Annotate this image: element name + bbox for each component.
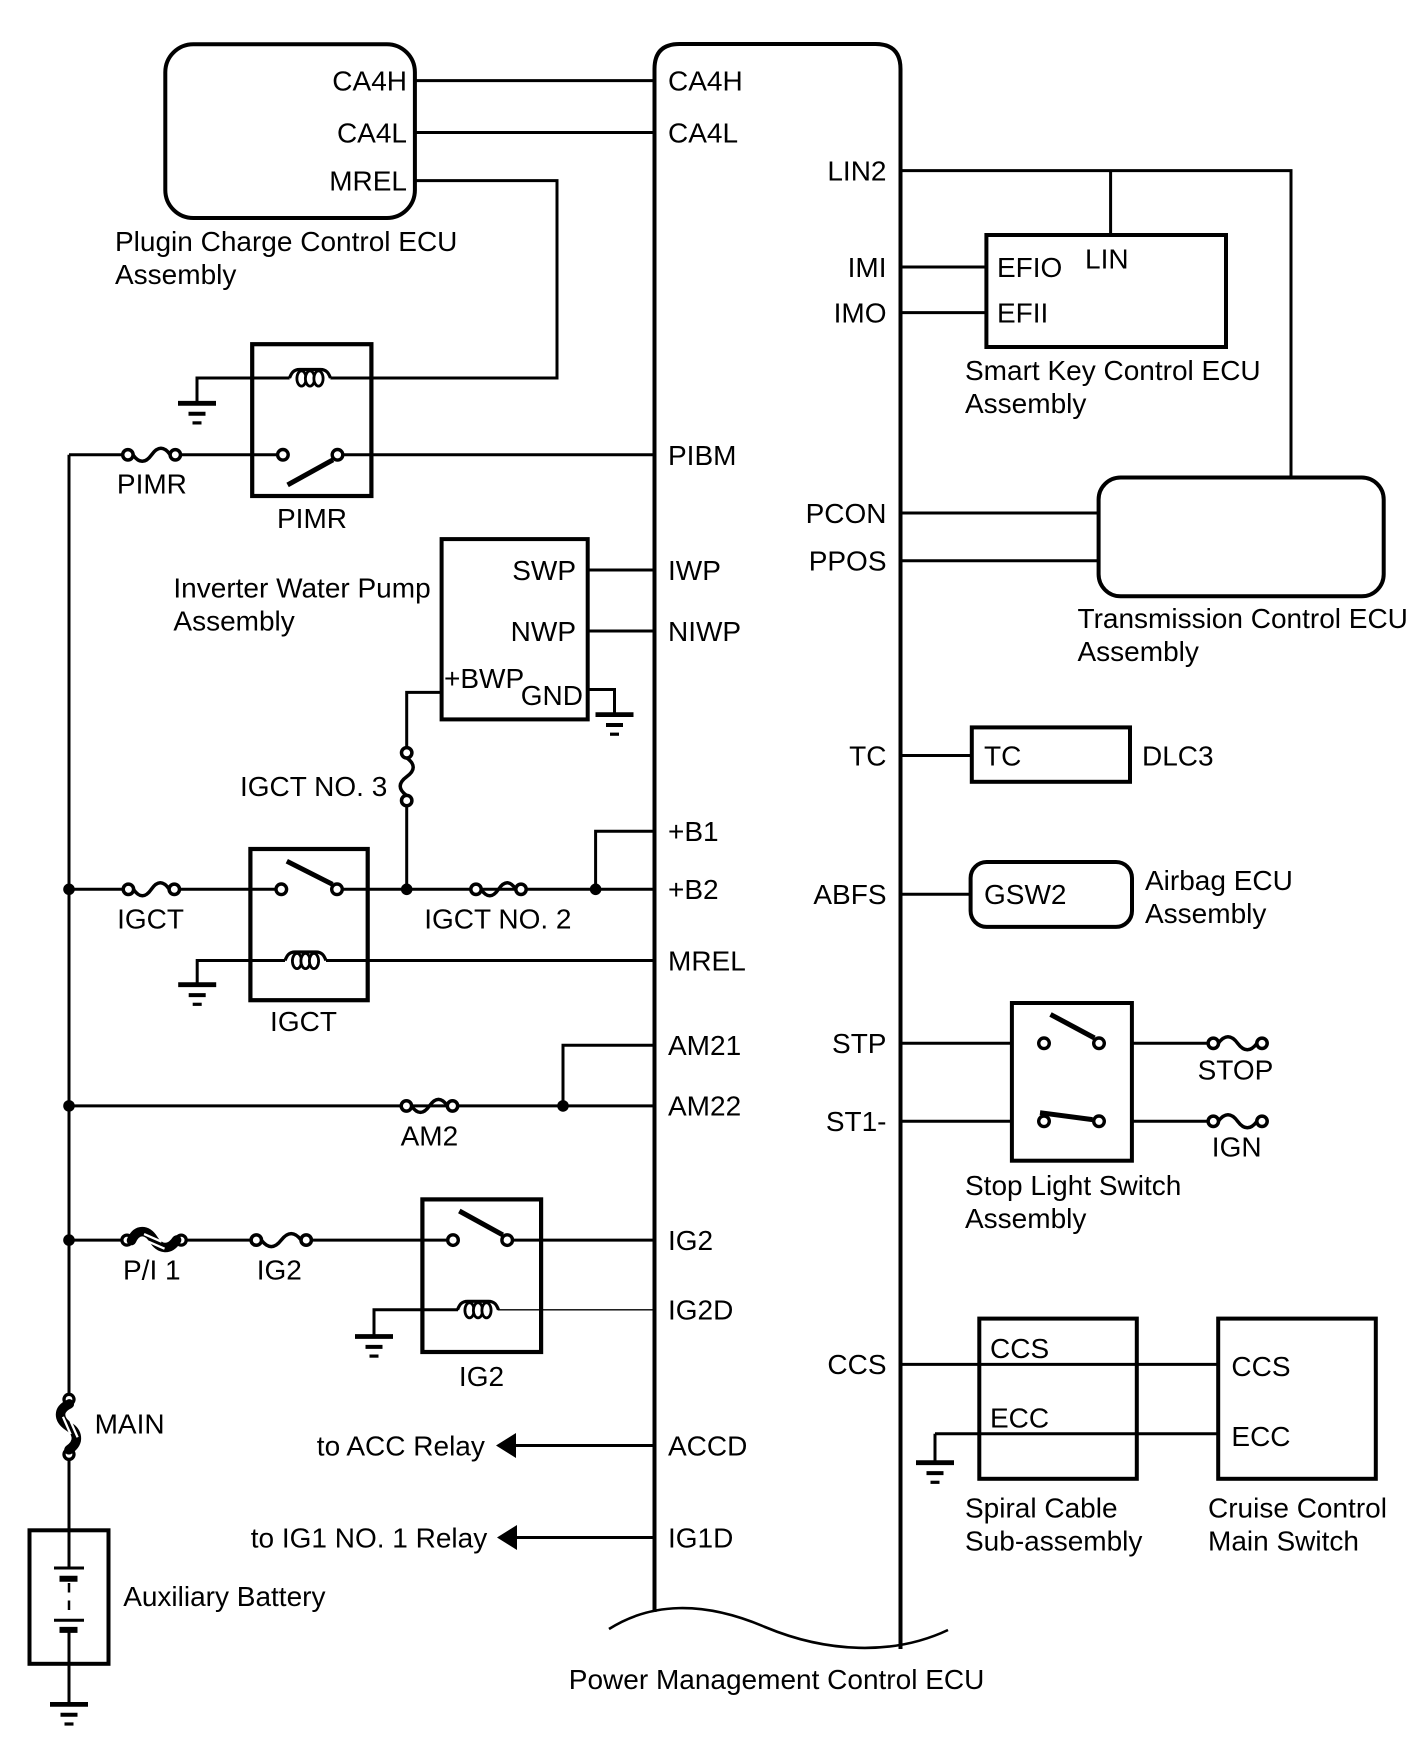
svg-text:PIMR: PIMR xyxy=(117,468,187,499)
battery dashed internal link xyxy=(68,1583,71,1617)
svg-text:to IG1 NO. 1 Relay: to IG1 NO. 1 Relay xyxy=(251,1522,488,1553)
svg-text:Smart Key Control ECU: Smart Key Control ECU xyxy=(965,355,1261,386)
svg-text:IMO: IMO xyxy=(834,297,887,328)
node junction: bus / IG2 xyxy=(63,1234,75,1246)
svg-text:ECC: ECC xyxy=(1231,1421,1290,1452)
svg-text:IGCT NO. 2: IGCT NO. 2 xyxy=(424,904,571,935)
wire ST1- to switch xyxy=(901,1120,1012,1123)
wire: fuse IGCT NO. 3 to +B2 rail xyxy=(405,805,408,889)
switch blade ST1- xyxy=(1040,1113,1093,1120)
op-amp U6: Airbag ECU box xyxy=(971,862,1132,927)
wire: switch to fuse IGN xyxy=(1132,1120,1209,1123)
svg-text:TC: TC xyxy=(984,740,1021,771)
svg-text:Power Management Control ECU: Power Management Control ECU xyxy=(569,1664,985,1695)
node junction: bus / +B2 xyxy=(63,884,75,896)
switch blade STP xyxy=(1051,1014,1095,1038)
wire ABFS xyxy=(901,893,971,896)
relay K1 PIMR box xyxy=(252,344,371,496)
svg-text:Assembly: Assembly xyxy=(173,606,294,637)
svg-text:MREL: MREL xyxy=(329,165,407,196)
fuse IGCT xyxy=(123,884,133,894)
inductor: IG2 relay coil xyxy=(458,1301,499,1310)
switch contact STP right xyxy=(1094,1038,1105,1049)
svg-text:PCON: PCON xyxy=(806,498,887,529)
wire: battery to ground xyxy=(68,1630,71,1704)
svg-text:ACCD: ACCD xyxy=(668,1430,747,1461)
wire PPOS xyxy=(901,559,1099,562)
svg-text:CA4L: CA4L xyxy=(337,117,407,148)
fuse PIMR xyxy=(123,450,133,460)
fuse IG2 xyxy=(251,1235,261,1245)
svg-text:IG2: IG2 xyxy=(668,1225,713,1256)
wire STP to switch xyxy=(901,1042,1012,1045)
svg-text:STP: STP xyxy=(832,1028,886,1059)
svg-text:CCS: CCS xyxy=(990,1333,1049,1364)
wire IG2: relay to ECU xyxy=(513,1239,655,1242)
wire IMO xyxy=(901,311,987,314)
battery plate short thick bottom xyxy=(60,1627,78,1633)
svg-text:Assembly: Assembly xyxy=(1145,898,1266,929)
switch contact PIMR right xyxy=(332,450,343,461)
svg-text:Main Switch: Main Switch xyxy=(1208,1525,1359,1556)
wire IG1D with arrow xyxy=(497,1525,517,1550)
svg-text:MREL: MREL xyxy=(668,945,746,976)
svg-text:Assembly: Assembly xyxy=(1078,636,1199,667)
svg-text:IG2: IG2 xyxy=(257,1254,302,1285)
svg-text:IGCT NO. 3: IGCT NO. 3 xyxy=(240,771,387,802)
wire: bus into battery xyxy=(68,1530,71,1566)
node junction: AM21 branch xyxy=(557,1100,569,1112)
op-amp U5: Transmission Control ECU box xyxy=(1099,478,1384,597)
wire TC xyxy=(901,754,972,757)
wire: fuse IGCT to relay IGCT xyxy=(179,888,276,891)
wire ACCD with arrow xyxy=(496,1433,516,1458)
svg-text:+BWP: +BWP xyxy=(444,663,524,694)
op-amp U4: Smart Key Control ECU box xyxy=(986,235,1226,347)
fuse IGN xyxy=(1208,1116,1218,1126)
wire: switch to fuse STOP xyxy=(1132,1042,1209,1045)
svg-text:Transmission Control ECU: Transmission Control ECU xyxy=(1078,603,1408,634)
op-amp U3: Inverter Water Pump box xyxy=(442,539,588,719)
wire AM22: bus to ECU xyxy=(69,1104,655,1107)
wire +B2: relay to ECU xyxy=(343,888,655,891)
wire CCS: ECU to cruise switch xyxy=(901,1363,1219,1366)
wire: wavy break at ECU bottom xyxy=(609,1608,948,1648)
ground (PIMR relay coil) xyxy=(178,401,216,406)
svg-text:IWP: IWP xyxy=(668,555,721,586)
switch contact PIMR left xyxy=(278,450,289,461)
svg-text:NIWP: NIWP xyxy=(668,616,741,647)
svg-text:AM21: AM21 xyxy=(668,1030,741,1061)
svg-text:EFIO: EFIO xyxy=(997,252,1062,283)
svg-text:PPOS: PPOS xyxy=(809,546,887,577)
svg-text:PIMR: PIMR xyxy=(277,503,347,534)
switch contact IGCT left xyxy=(276,884,287,895)
switch contact IG2 right xyxy=(502,1235,513,1246)
relay K2 IGCT box xyxy=(250,849,367,1000)
svg-text:CA4H: CA4H xyxy=(332,65,407,96)
node junction: bus / AM22 xyxy=(63,1100,75,1112)
svg-text:Airbag ECU: Airbag ECU xyxy=(1145,865,1293,896)
wire: fuse IG2 to relay IG2 xyxy=(311,1239,448,1242)
svg-text:CCS: CCS xyxy=(1231,1351,1290,1382)
wire PCON xyxy=(901,512,1099,515)
ground (inverter water pump) xyxy=(596,712,634,717)
svg-text:ABFS: ABFS xyxy=(813,879,886,910)
svg-text:EFII: EFII xyxy=(997,297,1048,328)
svg-text:STOP: STOP xyxy=(1198,1055,1274,1086)
wire IG2D: coil to ECU (thin) xyxy=(498,1309,655,1311)
svg-text:MAIN: MAIN xyxy=(95,1408,165,1439)
wire: fuse PIMR to relay xyxy=(179,453,277,456)
svg-text:+B2: +B2 xyxy=(668,874,719,905)
wire: P/I 1 to fuse IG2 xyxy=(186,1239,253,1242)
svg-text:Assembly: Assembly xyxy=(965,1203,1086,1234)
switch contact ST1- left xyxy=(1039,1116,1050,1127)
svg-text:+B1: +B1 xyxy=(668,816,719,847)
svg-text:Auxiliary Battery: Auxiliary Battery xyxy=(123,1581,325,1612)
op-amp U1: Power Management Control ECU box xyxy=(655,44,901,1649)
svg-text:AM2: AM2 xyxy=(401,1121,459,1152)
svg-text:ECC: ECC xyxy=(990,1403,1049,1434)
wire: IG2 coil to ground xyxy=(374,1310,458,1337)
switch S2: Cruise Control Main Switch box xyxy=(1218,1319,1376,1479)
wire: left bus corner to fuse PIMR xyxy=(69,453,124,456)
fuse IGCT NO. 3 xyxy=(402,748,412,758)
wire: PIMR coil to ground xyxy=(197,378,290,403)
switch blade PIMR xyxy=(288,460,333,485)
battery plate long top xyxy=(54,1567,84,1570)
switch contact ST1- right xyxy=(1094,1116,1105,1127)
switch blade IG2 xyxy=(459,1211,503,1235)
svg-text:IMI: IMI xyxy=(848,252,887,283)
svg-text:CA4H: CA4H xyxy=(668,65,743,96)
svg-text:Assembly: Assembly xyxy=(115,259,236,290)
wire IMI xyxy=(901,266,987,269)
svg-text:AM22: AM22 xyxy=(668,1091,741,1122)
switch blade IGCT xyxy=(287,861,333,884)
wire MREL: IGCT coil to ECU xyxy=(326,959,655,962)
wire: left vertical bus xyxy=(68,455,71,1567)
connector J1: DLC3 box xyxy=(972,727,1130,781)
switch contact IGCT right xyxy=(332,884,343,895)
node junction: +B1 branch xyxy=(590,884,602,896)
wire PIBM: relay to ECU xyxy=(343,453,655,456)
svg-text:IG2D: IG2D xyxy=(668,1295,733,1326)
wire: IGCT coil to ground xyxy=(197,961,285,985)
svg-text:GSW2: GSW2 xyxy=(984,879,1066,910)
relay K3 IG2 box xyxy=(422,1199,541,1352)
svg-text:LIN: LIN xyxy=(1085,243,1129,274)
svg-text:Spiral Cable: Spiral Cable xyxy=(965,1492,1118,1523)
svg-text:ST1-: ST1- xyxy=(826,1106,887,1137)
fusible link MAIN xyxy=(64,1394,74,1404)
wire NIWP xyxy=(588,630,655,633)
fuse STOP xyxy=(1208,1038,1218,1048)
wire CA4H xyxy=(415,79,655,82)
svg-text:to ACC Relay: to ACC Relay xyxy=(317,1430,485,1461)
svg-text:Plugin Charge Control ECU: Plugin Charge Control ECU xyxy=(115,226,457,257)
wire +BWP down to fuse IGCT NO. 3 xyxy=(407,692,442,748)
switch contact IG2 left xyxy=(448,1235,459,1246)
fuse IGCT NO. 2 xyxy=(471,884,481,894)
svg-text:DLC3: DLC3 xyxy=(1142,740,1214,771)
svg-text:GND: GND xyxy=(521,680,583,711)
svg-text:TC: TC xyxy=(849,740,886,771)
ground (IGCT relay coil) xyxy=(178,982,216,987)
fusible link P/I 1 xyxy=(122,1235,132,1245)
svg-text:IGCT: IGCT xyxy=(270,1006,337,1037)
wire: bus to fuse IGCT xyxy=(69,888,124,891)
svg-text:Sub-assembly: Sub-assembly xyxy=(965,1525,1142,1556)
ground (auxiliary battery) xyxy=(50,1702,88,1707)
switch S1: Stop Light Switch box xyxy=(1012,1003,1132,1161)
svg-text:SWP: SWP xyxy=(512,555,576,586)
wire: LIN stub to smart key box xyxy=(1109,171,1112,235)
svg-text:Inverter Water Pump: Inverter Water Pump xyxy=(173,573,430,604)
svg-text:Assembly: Assembly xyxy=(965,388,1086,419)
battery BT1 Auxiliary Battery box xyxy=(30,1530,109,1664)
battery plate long bottom xyxy=(54,1619,84,1622)
node junction: IGCT NO.3 / +B2 xyxy=(401,884,413,896)
inductor: IGCT relay coil xyxy=(285,952,326,961)
wire CA4L xyxy=(415,131,655,134)
wire ECC: ground stub to cruise switch xyxy=(935,1434,1218,1463)
wire MREL to PIMR relay coil xyxy=(330,181,557,378)
svg-text:Cruise Control: Cruise Control xyxy=(1208,1492,1387,1523)
svg-text:IG2: IG2 xyxy=(459,1361,504,1392)
svg-text:CA4L: CA4L xyxy=(668,117,738,148)
switch contact STP left xyxy=(1039,1038,1050,1049)
svg-text:IGCT: IGCT xyxy=(117,904,184,935)
wire LIN2 to transmission ECU xyxy=(901,171,1292,478)
svg-text:IG1D: IG1D xyxy=(668,1522,733,1553)
svg-text:LIN2: LIN2 xyxy=(827,155,886,186)
fuse AM2 xyxy=(401,1101,411,1111)
svg-text:Stop Light Switch: Stop Light Switch xyxy=(965,1170,1181,1201)
wire: bus to fusible link P/I 1 xyxy=(69,1239,123,1242)
svg-text:CCS: CCS xyxy=(827,1349,886,1380)
wire GND to ground xyxy=(588,690,615,715)
ground (IG2 relay coil) xyxy=(355,1334,393,1339)
battery plate short thick xyxy=(60,1576,78,1582)
inductor: PIMR relay coil xyxy=(290,370,331,379)
wire IWP xyxy=(588,569,655,572)
ground (spiral cable ECC) xyxy=(916,1460,954,1465)
svg-text:NWP: NWP xyxy=(511,616,576,647)
connector J2: Spiral Cable box xyxy=(979,1319,1137,1479)
op-amp U2: Plugin Charge Control ECU box xyxy=(165,44,415,218)
svg-text:PIBM: PIBM xyxy=(668,440,736,471)
svg-text:IGN: IGN xyxy=(1212,1132,1262,1163)
wire AM21 branch xyxy=(563,1045,655,1106)
svg-text:P/I 1: P/I 1 xyxy=(123,1254,181,1285)
wire +B1 branch xyxy=(596,831,655,889)
